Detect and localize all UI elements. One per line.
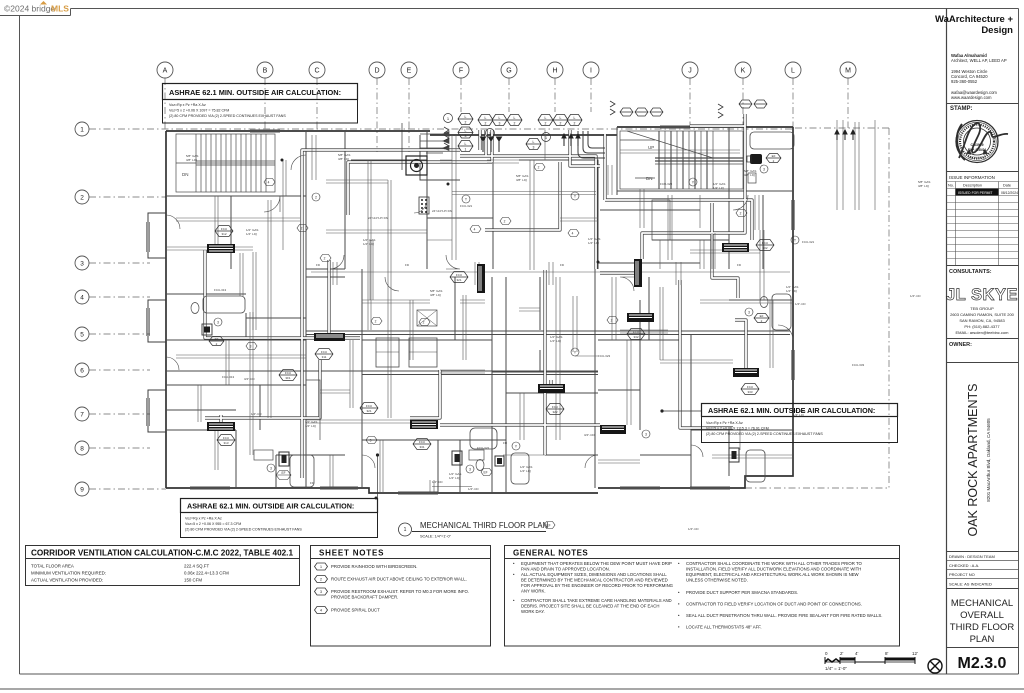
title block frame (946, 9, 948, 675)
svg-text:L: L (514, 116, 516, 120)
left staircase (176, 134, 275, 192)
svg-text:1: 1 (465, 148, 467, 152)
duct runs (inner white core) (205, 114, 752, 478)
svg-text:1/4"-CD: 1/4"-CD (795, 302, 806, 306)
svg-text:1/4"-CD: 1/4"-CD (468, 487, 479, 491)
general notes box (505, 546, 900, 647)
svg-text:PROVIDE BACKDRAFT DAMPER.: PROVIDE BACKDRAFT DAMPER. (331, 595, 398, 600)
svg-text:FCU: FCU (419, 440, 425, 444)
svg-text:SHEET NOTES: SHEET NOTES (319, 549, 384, 558)
svg-text:FCU-313: FCU-313 (214, 288, 227, 292)
bay window left 2 (148, 300, 166, 342)
svg-text:2: 2 (375, 320, 377, 324)
svg-text:925-360-0552: 925-360-0552 (951, 79, 978, 84)
svg-text:2603 CAMINO RAMON, SUITE 200: 2603 CAMINO RAMON, SUITE 200 (950, 312, 1015, 317)
svg-text:08/12/2024: 08/12/2024 (1001, 191, 1018, 195)
bathtub bottom-right vertical (746, 450, 765, 482)
svg-text:PLAN: PLAN (970, 634, 995, 645)
svg-text:MECHANICAL: MECHANICAL (951, 598, 1013, 609)
svg-text:FCU: FCU (633, 330, 639, 334)
svg-text:FCU: FCU (747, 385, 753, 389)
bay window left 1 (148, 213, 166, 258)
svg-text:CONSULTANTS:: CONSULTANTS: (949, 269, 992, 275)
svg-text:M2.3.0: M2.3.0 (958, 655, 1007, 672)
issue information section (947, 171, 1019, 173)
svg-text:333: 333 (747, 390, 752, 394)
svg-text:OAK ROCK APARTMENTS: OAK ROCK APARTMENTS (966, 383, 980, 536)
svg-text:STAMP:: STAMP: (950, 106, 973, 112)
svg-text:2: 2 (315, 196, 317, 200)
svg-text:Design: Design (981, 25, 1013, 36)
circled keynote 1 top (444, 114, 453, 123)
svg-text:4': 4' (855, 651, 859, 656)
refrigerant pipe thin runs (166, 120, 875, 440)
svg-text:www.waardesign.com: www.waardesign.com (951, 95, 992, 100)
svg-text:E: E (407, 68, 412, 75)
svg-text:3: 3 (250, 345, 252, 349)
svg-text:331: 331 (419, 445, 424, 449)
svg-text:D: D (374, 68, 379, 75)
svg-text:ALL ACTUAL EQUIPMENT SIZES, DI: ALL ACTUAL EQUIPMENT SIZES, DIMENSIONS A… (521, 572, 667, 577)
svg-text:1/4" LIQ: 1/4" LIQ (363, 242, 375, 246)
svg-text:THIRD FLOOR: THIRD FLOOR (950, 622, 1015, 633)
circled tags scattered (267, 178, 799, 473)
svg-text:2: 2 (740, 212, 742, 216)
svg-text:FCU-322: FCU-322 (477, 446, 490, 450)
svg-text:4: 4 (268, 181, 270, 185)
svg-text:JL SKYE: JL SKYE (946, 286, 1018, 304)
svg-text:3: 3 (748, 311, 750, 315)
FCU black bar registers (207, 243, 759, 434)
bottom tables (26, 521, 943, 673)
svg-text:H: H (552, 68, 557, 75)
svg-text:L: L (499, 116, 501, 120)
svg-text:2: 2 (538, 166, 540, 170)
svg-text:3/8" LIQ: 3/8" LIQ (744, 173, 756, 177)
svg-text:PROVIDE RESTROOM EXHAUST. REFE: PROVIDE RESTROOM EXHAUST. REFER TO M0.3 … (331, 589, 469, 594)
svg-text:2: 2 (324, 257, 326, 261)
svg-text:3: 3 (499, 122, 501, 126)
svg-text:FCU-313: FCU-313 (222, 375, 235, 379)
exhaust fan squiggles at duct risers (444, 101, 723, 149)
bathtub bottom-center vertical (511, 453, 529, 484)
svg-text:3: 3 (270, 467, 272, 471)
svg-text:1/4" LIQ: 1/4" LIQ (246, 232, 258, 236)
svg-text:L: L (791, 68, 795, 75)
ASHRAE box 1 (top) (163, 84, 403, 171)
louver hexagon row H-I top (526, 115, 582, 150)
svg-text:©2024 bridge: ©2024 bridge (4, 4, 55, 14)
consultants section (947, 265, 1019, 267)
svg-text:1/4"-CD: 1/4"-CD (910, 294, 921, 298)
svg-text:3: 3 (80, 261, 84, 268)
svg-text:6: 6 (80, 368, 84, 375)
corridor ventilation calculation table (26, 546, 300, 586)
svg-text:WORK DAY.: WORK DAY. (521, 609, 545, 614)
svg-text:8': 8' (885, 651, 889, 656)
svg-text:(2) 80 CFM PROVIDED VIA (: (2) 80 CFM PROVIDED VIA (2) 2-SPEED CONT… (185, 528, 302, 532)
door swing arcs (166, 155, 793, 468)
svg-text:1/4"-CD: 1/4"-CD (688, 527, 699, 531)
kitchen island center (417, 310, 437, 326)
louver hexagon stack F top (458, 114, 473, 152)
window glyphs on exterior walls (147, 126, 795, 495)
nested duct elbows right of H cluster (578, 131, 605, 158)
svg-text:322: 322 (552, 410, 557, 414)
svg-text:CHECKED : A.A.: CHECKED : A.A. (949, 563, 979, 568)
additional pipe network (176, 130, 793, 493)
svg-text:FCU: FCU (223, 436, 229, 440)
note 1 (315, 563, 328, 614)
svg-text:ISSUE INFORMATION: ISSUE INFORMATION (949, 175, 995, 180)
svg-text:0.06x 222.4=13.3 CFM: 0.06x 222.4=13.3 CFM (184, 571, 229, 576)
svg-text:BE DETERMINED BY THE MECHANICA: BE DETERMINED BY THE MECHANICAL CONTRACT… (521, 578, 668, 583)
bathtub left unit (203, 296, 245, 313)
svg-text:EF: EF (760, 314, 764, 318)
svg-text:SCALE: AS INDICATED: SCALE: AS INDICATED (949, 582, 992, 587)
svg-text:UNLESS OTHERWISE NOTED.: UNLESS OTHERWISE NOTED. (686, 578, 748, 583)
svg-text:8201 MacArthur Blvd, Oakland,: 8201 MacArthur Blvd, Oakland, CA 94605 (986, 418, 991, 502)
svg-text:ASHRAE 62.1 MIN. OUTSIDE AIR C: ASHRAE 62.1 MIN. OUTSIDE AIR CALCULATION… (708, 406, 875, 415)
closet shelves right (652, 200, 670, 240)
svg-text:3/8" LIQ: 3/8" LIQ (918, 184, 930, 188)
svg-text:PROVIDE DUCT SUPPORT PER SMACN: PROVIDE DUCT SUPPORT PER SMACNA STANDARD… (686, 590, 798, 595)
svg-text:4: 4 (572, 232, 574, 236)
svg-text:Architect, WELL AP, LEED AP: Architect, WELL AP, LEED AP (951, 58, 1007, 63)
svg-text:FCU: FCU (321, 350, 327, 354)
watermark bridgeMLS (4, 1, 69, 14)
ASHRAE box 2 (bottom-left) (181, 453, 380, 537)
svg-text:3/4"-CD: 3/4"-CD (244, 377, 255, 381)
svg-text:DN: DN (646, 176, 653, 181)
svg-text:3: 3 (370, 439, 372, 443)
exterior walls (166, 127, 793, 493)
bottom gray rule (0, 688, 1024, 690)
svg-text:2: 2 (514, 122, 516, 126)
leader dots (281, 159, 284, 162)
kitchen counter left (306, 380, 320, 440)
plan title (399, 521, 549, 539)
svg-text:C-33999: C-33999 (970, 143, 983, 147)
svg-text:8: 8 (80, 446, 84, 453)
svg-text:FCU-321: FCU-321 (802, 240, 815, 244)
bathtub top-right (750, 132, 794, 149)
svg-text:Description: Description (963, 184, 982, 188)
svg-text:2: 2 (504, 220, 506, 224)
svg-text:J: J (688, 68, 692, 75)
svg-text:LOCATE ALL THERMOSTATS 48" AFF: LOCATE ALL THERMOSTATS 48" AFF. (686, 625, 762, 630)
svg-text:2: 2 (465, 121, 467, 125)
svg-text:A: A (163, 68, 168, 75)
svg-text:1/4" = 1'-0": 1/4" = 1'-0" (825, 666, 847, 671)
svg-text:3: 3 (465, 134, 467, 138)
svg-text:2: 2 (574, 122, 576, 126)
svg-text:12': 12' (912, 651, 918, 656)
svg-text:311: 311 (322, 355, 327, 359)
svg-text:(2) 80 CFM PROVIDED VIA: (2) 80 CFM PROVIDED VIA (2) 2-SPEED CONT… (706, 432, 823, 436)
svg-text:3/4"-CD: 3/4"-CD (584, 433, 595, 437)
svg-text:MECHANICAL: MECHANICAL (968, 156, 986, 160)
svg-text:CORRIDOR VENTILATION CALCULATI: CORRIDOR VENTILATION CALCULATION-C.M.C 2… (31, 549, 293, 558)
svg-text:FCU-333: FCU-333 (852, 363, 865, 367)
svg-text:CONTRACTOR SHALL COORDINATE TH: CONTRACTOR SHALL COORDINATE THE WORK WIT… (686, 561, 863, 566)
ASHRAE box 3 (right) (660, 404, 897, 443)
svg-text:1/4" LIQ: 1/4" LIQ (786, 289, 798, 293)
svg-text:1: 1 (80, 127, 84, 134)
row grid bubbles 1-9 (75, 122, 89, 496)
svg-text:2: 2 (611, 319, 613, 323)
svg-text:EQUIPMENT, ELECTRICAL AND ARCH: EQUIPMENT, ELECTRICAL AND ARCHITECTURAL … (686, 572, 860, 577)
sheet notes box (311, 546, 491, 647)
svg-text:FCU-321: FCU-321 (460, 204, 473, 208)
svg-text:FCU: FCU (456, 273, 462, 277)
svg-text:CONTRACTOR SHALL TAKE EXTREME: CONTRACTOR SHALL TAKE EXTREME CARE HANDL… (521, 598, 672, 603)
svg-text:FCU: FCU (285, 371, 291, 375)
duct runs (outer) (205, 114, 752, 478)
svg-text:L: L (465, 142, 467, 146)
sheet number M2.3.0 (947, 647, 1019, 649)
svg-text:EQUIPMENT THAT OPERATES BELOW: EQUIPMENT THAT OPERATES BELOW THE DEW PO… (521, 561, 672, 566)
north arrow (928, 659, 942, 673)
svg-text:4: 4 (320, 609, 322, 613)
svg-text:Voz=5 x 2 +0.06 X 1115.3: Voz=5 x 2 +0.06 X 1115.3 = 76.91 CFM (706, 427, 769, 431)
svg-text:3: 3 (533, 146, 535, 150)
svg-text:C: C (314, 68, 319, 75)
svg-text:3/8" LIQ: 3/8" LIQ (430, 293, 442, 297)
svg-text:I: I (590, 68, 592, 75)
svg-text:3/8" LIQ: 3/8" LIQ (186, 158, 198, 162)
svg-text:EF: EF (772, 154, 776, 158)
bay window left 3 (148, 390, 166, 432)
svg-text:3: 3 (469, 468, 471, 472)
svg-text:24"x10"LP/ DN: 24"x10"LP/ DN (432, 209, 452, 213)
svg-text:1/4" LIQ: 1/4" LIQ (713, 186, 725, 190)
riser arrows top center (481, 130, 856, 152)
svg-text:3: 3 (763, 168, 765, 172)
svg-text:No.: No. (948, 184, 954, 188)
svg-text:3/8" LIQ: 3/8" LIQ (338, 157, 350, 161)
svg-text:M: M (845, 68, 851, 75)
left pipe stubs at F cluster (420, 132, 449, 154)
svg-text:L: L (574, 116, 576, 120)
svg-text:Voz=Rp x Pz +Ra X Az: Voz=Rp x Pz +Ra X Az (706, 421, 743, 425)
svg-text:1/4"-CD: 1/4"-CD (432, 480, 443, 484)
svg-text:2: 2 (320, 578, 322, 582)
svg-text:L: L (485, 116, 487, 120)
svg-text:WaArchitecture +: WaArchitecture + (935, 14, 1013, 25)
bathtub center horizontal (470, 428, 497, 449)
svg-text:24"x10"LP/ DN: 24"x10"LP/ DN (368, 216, 388, 220)
svg-text:2: 2 (485, 122, 487, 126)
svg-text:G: G (506, 68, 511, 75)
PLAN (75, 62, 930, 538)
svg-text:150 CFM: 150 CFM (184, 578, 202, 583)
tiny pipe labels (186, 153, 930, 531)
stamp section divider (947, 103, 1019, 105)
svg-text:1/4"-CD: 1/4"-CD (251, 412, 262, 416)
svg-text:SEAL ALL DUCT PENETRATION THRU: SEAL ALL DUCT PENETRATION THRU WALL. PRO… (686, 613, 882, 618)
svg-text:FCU: FCU (552, 405, 558, 409)
svg-text:DN: DN (182, 172, 189, 177)
svg-text:ANY WORK.: ANY WORK. (521, 589, 546, 594)
row grid lines (89, 129, 795, 489)
svg-text:B: B (263, 68, 268, 75)
dryer device top-center (406, 156, 427, 175)
svg-text:FCU-323: FCU-323 (660, 182, 673, 186)
svg-text:(2) 80 CFM PROVIDED VIA (: (2) 80 CFM PROVIDED VIA (2) 2-SPEED CONT… (169, 114, 286, 118)
svg-text:L: L (560, 116, 562, 120)
sink center (469, 450, 484, 460)
svg-text:1/4" LIQ: 1/4" LIQ (588, 241, 600, 245)
column grid lines (165, 78, 889, 488)
svg-text:FCU-323: FCU-323 (598, 354, 611, 358)
svg-text:1/4" LIQ: 1/4" LIQ (305, 424, 317, 428)
stamp seal (956, 121, 1008, 163)
svg-text:PH: (510) 882-4377: PH: (510) 882-4377 (964, 324, 1000, 329)
svg-text:ASHRAE 62.1 MIN. OUTSIDE AIR C: ASHRAE 62.1 MIN. OUTSIDE AIR CALCULATION… (187, 502, 354, 511)
svg-text:1/4" LIQ: 1/4" LIQ (449, 476, 461, 480)
svg-text:TEB GROUP: TEB GROUP (970, 306, 994, 311)
register slats (white lines inside bars) (209, 245, 757, 430)
svg-text:L: L (465, 115, 467, 119)
svg-text:1/4" LIQ: 1/4" LIQ (550, 339, 562, 343)
svg-text:313: 313 (223, 441, 228, 445)
column grid bubbles A-M (157, 62, 856, 78)
svg-text:TOTAL FLOOR AREA: TOTAL FLOOR AREA (31, 564, 74, 569)
svg-text:Voz=Rp x Pz +Ra X Az: Voz=Rp x Pz +Ra X Az (169, 103, 206, 107)
svg-text:FCU: FCU (762, 241, 768, 245)
hexagon labels top (465, 115, 576, 152)
title block column (935, 9, 1019, 675)
svg-text:5: 5 (80, 332, 84, 339)
svg-text:FOR APPROVAL BY THE ENGINEER O: FOR APPROVAL BY THE ENGINEER OF RECORD P… (521, 583, 674, 588)
svg-text:2: 2 (423, 321, 425, 325)
toilet center (476, 460, 484, 471)
graphic scale bar (825, 651, 918, 671)
svg-text:CONTRACTOR TO FIELD VERIFY LOC: CONTRACTOR TO FIELD VERIFY LOCATION OF D… (686, 602, 862, 607)
svg-text:3: 3 (217, 321, 219, 325)
svg-text:3: 3 (320, 590, 322, 594)
toilet left (191, 303, 199, 314)
svg-text:L: L (533, 140, 535, 144)
svg-text:2: 2 (545, 122, 547, 126)
svg-text:OWNER:: OWNER: (949, 342, 972, 348)
svg-text:2': 2' (840, 651, 844, 656)
svg-text:MINIMUM VENTILATION REQUIRED:: MINIMUM VENTILATION REQUIRED: (31, 571, 106, 576)
svg-text:ROUTE EXHAUST AIR DUCT ABOVE C: ROUTE EXHAUST AIR DUCT ABOVE CEILING TO … (331, 577, 467, 582)
svg-text:MLS: MLS (51, 4, 69, 14)
svg-text:321: 321 (366, 409, 371, 413)
thermostat board center (419, 197, 429, 214)
svg-text:UP: UP (648, 145, 654, 150)
svg-text:EF: EF (215, 337, 219, 341)
svg-text:1: 1 (320, 565, 322, 569)
svg-text:EF: EF (483, 471, 487, 475)
svg-text:ISSUED FOR PERMIT: ISSUED FOR PERMIT (958, 191, 992, 195)
svg-text:PROJECT NO: PROJECT NO (949, 572, 975, 577)
closet pair center band (376, 338, 399, 367)
svg-text:312: 312 (221, 232, 226, 236)
louver hexagon cluster J top (620, 100, 767, 116)
svg-text:4: 4 (474, 228, 476, 232)
svg-text:EF: EF (281, 471, 285, 475)
svg-text:3: 3 (645, 433, 647, 437)
svg-text:Date: Date (1003, 184, 1011, 188)
svg-text:1: 1 (404, 527, 407, 533)
svg-text:321: 321 (456, 278, 461, 282)
svg-text:F: F (459, 68, 463, 75)
svg-text:EXP. 9/30/24: EXP. 9/30/24 (968, 148, 987, 152)
svg-text:DEBRIS. PROJECT SITE SHALL BE: DEBRIS. PROJECT SITE SHALL BE CLEANED AT… (521, 604, 660, 609)
svg-text:GENERAL NOTES: GENERAL NOTES (513, 549, 588, 558)
FCU hexagon tags (215, 226, 774, 450)
louver hexagon row F-G top (478, 115, 522, 126)
small keynote hexagons (246, 164, 747, 529)
interior walls (166, 127, 793, 493)
svg-text:1/4" LIQ: 1/4" LIQ (520, 469, 532, 473)
svg-text:OVERALL: OVERALL (960, 610, 1004, 621)
right staircase (620, 131, 743, 189)
svg-text:SAN RAMON, CA, 94583: SAN RAMON, CA, 94583 (959, 318, 1005, 323)
svg-text:L: L (545, 116, 547, 120)
svg-text:SCALE: 1/4"=1'-0": SCALE: 1/4"=1'-0" (420, 535, 452, 539)
svg-text:3F1: 3F1 (285, 376, 291, 380)
sink bottom-left (254, 450, 273, 460)
owner section (947, 338, 1019, 340)
svg-text:Voz=5 x 2 +0.06 X 1097 =: Voz=5 x 2 +0.06 X 1097 = 75.82 CFM (169, 109, 229, 113)
bathtub right vertical (772, 294, 791, 330)
svg-text:Voz=5 x 2 +0.06 X 955 =: Voz=5 x 2 +0.06 X 955 = 67.3 CFM (185, 522, 241, 526)
svg-text:332: 332 (633, 335, 638, 339)
water heater closet boxes (279, 452, 289, 466)
svg-text:4: 4 (80, 295, 84, 302)
svg-text:2: 2 (80, 195, 84, 202)
svg-text:2: 2 (301, 227, 303, 231)
left bath exhaust fan (202, 324, 212, 335)
bathtub bottom-left vertical (290, 455, 314, 487)
svg-text:PAN AND DRAIN TO APPROVED LOCA: PAN AND DRAIN TO APPROVED LOCATION. (521, 567, 610, 572)
drawn/checked rows (947, 551, 1019, 553)
svg-text:DRAWN : DESIGN TEAM: DRAWN : DESIGN TEAM (949, 554, 995, 559)
svg-text:FCU: FCU (366, 404, 372, 408)
svg-text:7: 7 (80, 412, 84, 419)
svg-text:222.4 SQ.FT: 222.4 SQ.FT (184, 564, 209, 569)
svg-text:PROVIDE RAINHOOD WITH BIRDSCRE: PROVIDE RAINHOOD WITH BIRDSCREEN. (331, 564, 417, 569)
svg-text:L: L (465, 129, 467, 133)
svg-text:K: K (741, 68, 746, 75)
svg-text:EMAIL: arsolen@teebinc.com: EMAIL: arsolen@teebinc.com (956, 330, 1010, 335)
svg-text:502: 502 (762, 246, 767, 250)
svg-text:Voz=Rp x Pz +Ra X Az: Voz=Rp x Pz +Ra X Az (185, 517, 222, 521)
svg-text:INSTALLATION. FIELD VERIFY ALL: INSTALLATION. FIELD VERIFY ALL DUCTWORK … (686, 567, 861, 572)
svg-text:3/8" LIQ: 3/8" LIQ (516, 178, 528, 182)
svg-text:2: 2 (560, 122, 562, 126)
svg-text:PROVIDE SPIRAL DUCT: PROVIDE SPIRAL DUCT (331, 608, 380, 613)
svg-text:ASHRAE 62.1 MIN. OUTSIDE AIR C: ASHRAE 62.1 MIN. OUTSIDE AIR CALCULATION… (169, 88, 341, 97)
svg-text:9: 9 (80, 487, 84, 494)
svg-text:ACTUAL VENTILATION PROVIDED:: ACTUAL VENTILATION PROVIDED: (31, 578, 103, 583)
svg-text:MECHANICAL THIRD FLOOR PLAN: MECHANICAL THIRD FLOOR PLAN (420, 521, 548, 530)
EF fan top-right (750, 154, 762, 164)
svg-text:FCU: FCU (221, 227, 227, 231)
